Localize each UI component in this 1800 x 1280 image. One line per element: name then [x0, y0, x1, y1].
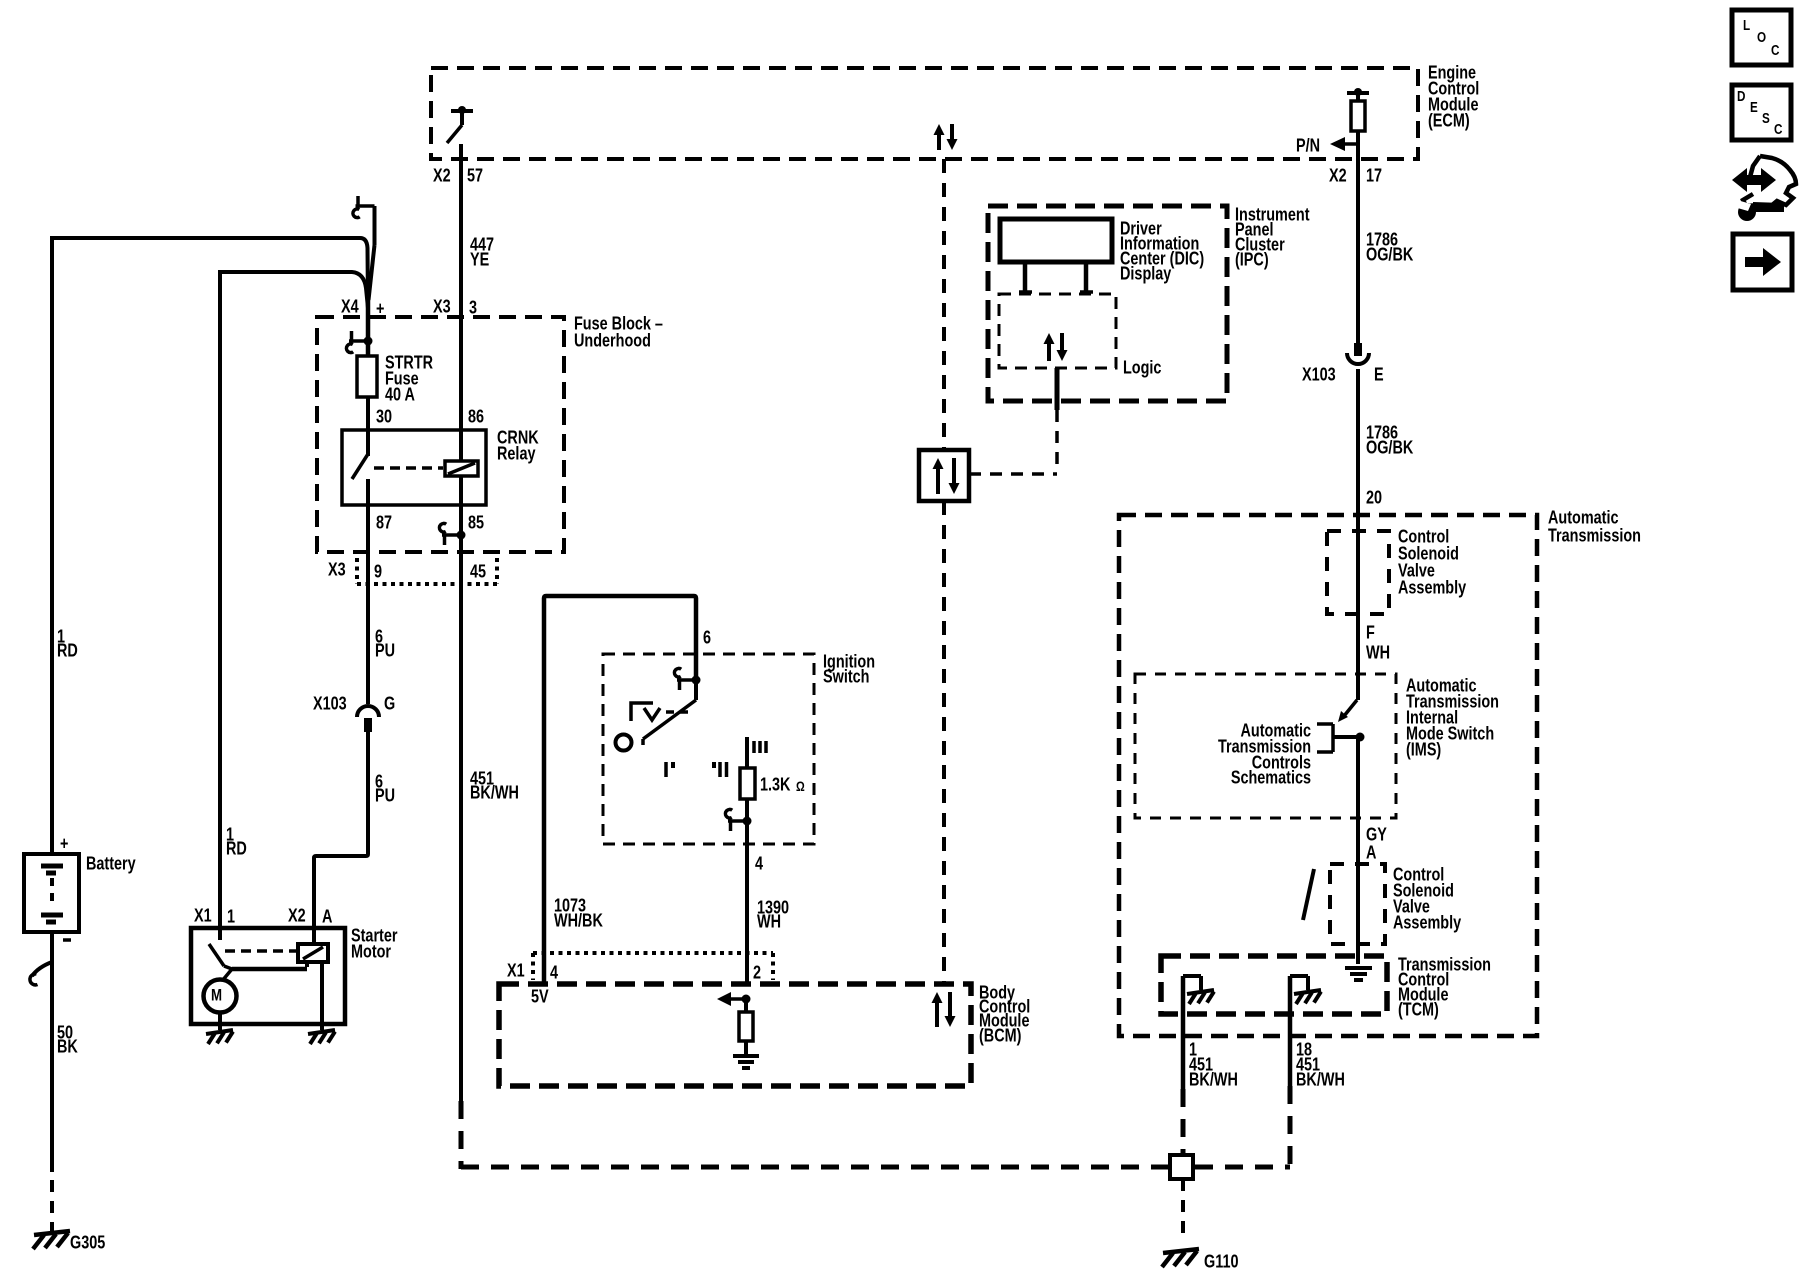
- starter linkage dashed: [225, 949, 296, 953]
- label X103 G: [313, 693, 395, 714]
- svg-text:C: C: [1771, 42, 1780, 59]
- ignition lock symbol: [631, 703, 688, 721]
- svg-text:Logic: Logic: [1123, 357, 1161, 378]
- IMS junction: [1356, 733, 1365, 742]
- svg-text:30: 30: [376, 406, 392, 427]
- label pin 2 bcm: [753, 962, 761, 983]
- svg-text:RD: RD: [226, 838, 247, 859]
- label X3 3: [433, 296, 477, 318]
- slash mark: [1303, 869, 1314, 920]
- label pin 4 bcm: [550, 962, 559, 983]
- svg-text:X3: X3: [328, 559, 346, 580]
- label Ignition Switch: [823, 651, 875, 687]
- starter solenoid link to motor: [222, 962, 307, 981]
- icon wrench: [1734, 200, 1784, 221]
- svg-text:X2: X2: [433, 165, 451, 186]
- svg-text:85: 85: [468, 512, 484, 533]
- label 451 BK/WH: [470, 768, 519, 803]
- svg-text:(BCM): (BCM): [979, 1025, 1021, 1046]
- DIC display: [1000, 219, 1112, 262]
- starter motor box: [191, 928, 345, 1024]
- dashed serial data wire ECM to BCM: [942, 159, 946, 984]
- svg-text:Underhood: Underhood: [574, 330, 651, 351]
- svg-text:87: 87: [376, 512, 392, 533]
- label 1390 WH: [757, 897, 789, 932]
- ignition position II: [712, 762, 727, 777]
- label X2 17: [1329, 165, 1382, 186]
- wire F WH: [1356, 531, 1360, 700]
- serial data junction box: [919, 450, 969, 501]
- svg-text:L: L: [1743, 17, 1750, 34]
- splice with hook below X4: [346, 331, 372, 353]
- label pin 86: [468, 406, 484, 427]
- BCM serial data arrows: [932, 992, 956, 1027]
- svg-text:17: 17: [1366, 165, 1382, 186]
- svg-text:X1: X1: [507, 960, 525, 981]
- IMS switch blade: [1338, 700, 1357, 722]
- svg-text:Assembly: Assembly: [1398, 577, 1467, 598]
- BCM signal ground: [733, 1056, 759, 1068]
- svg-text:86: 86: [468, 406, 484, 427]
- label CRNK Relay: [497, 427, 539, 464]
- logic arrows: [1044, 333, 1068, 361]
- svg-text:X103: X103: [313, 693, 347, 714]
- svg-text:G305: G305: [70, 1232, 105, 1253]
- svg-text:WH: WH: [1366, 642, 1390, 663]
- svg-text:Relay: Relay: [497, 443, 536, 464]
- wire 1 RD node X4 to starter X1: [220, 272, 368, 928]
- label pin 20: [1366, 487, 1382, 508]
- svg-text:X3: X3: [433, 296, 451, 317]
- label pin 4: [755, 853, 764, 874]
- label X1 1 starter: [194, 905, 235, 927]
- svg-text:S: S: [1762, 110, 1770, 127]
- svg-text:+: +: [60, 833, 69, 854]
- fuse block underhood dashed box: [317, 317, 564, 552]
- starter switch contact: [209, 928, 232, 969]
- control solenoid valve assembly upper box: [1327, 531, 1389, 614]
- label 1073 WH/BK: [554, 895, 603, 931]
- svg-text:PU: PU: [375, 785, 395, 806]
- starter solenoid coil: [298, 944, 328, 962]
- wire 451 BK/WH pin 18: [1288, 976, 1293, 1086]
- IMS bracket link: [1317, 724, 1356, 752]
- label Fuse Block - Underhood: [574, 313, 663, 351]
- svg-text:X103: X103: [1302, 364, 1336, 385]
- svg-text:X4: X4: [341, 296, 359, 317]
- ground G305: [33, 1231, 70, 1249]
- TCM ground driver 18: [1290, 976, 1308, 990]
- wire 447 YE: [459, 159, 463, 430]
- transmission control module TCM dashed box: [1161, 956, 1387, 1014]
- TCM ground driver 1: [1183, 976, 1201, 990]
- svg-text:2: 2: [753, 962, 761, 983]
- svg-text:PU: PU: [375, 640, 395, 661]
- svg-text:4: 4: [550, 962, 559, 983]
- label 1 451 BK/WH: [1189, 1039, 1238, 1090]
- wire relay coil pin 86: [459, 430, 463, 461]
- ignition splice hook pin 6: [674, 668, 700, 690]
- label X2 57: [433, 165, 483, 186]
- label 447 YE: [470, 234, 494, 270]
- label Transmission Control Module (TCM): [1398, 954, 1491, 1020]
- connector X1 dotted box: [533, 953, 773, 980]
- relay K1 CRNK box: [342, 430, 486, 505]
- label P/N: [1296, 135, 1320, 156]
- icon shape outline: [1743, 156, 1796, 206]
- label 5V: [531, 986, 549, 1007]
- label Body Control Module (BCM): [979, 982, 1030, 1046]
- svg-text:YE: YE: [470, 249, 489, 270]
- TCM signal ground: [1345, 968, 1372, 980]
- svg-text:Schematics: Schematics: [1231, 767, 1311, 788]
- ignition resistor 1.3K: [740, 737, 755, 812]
- splice hook battery negative: [30, 962, 52, 985]
- svg-text:45: 45: [470, 561, 486, 582]
- svg-text:BK/WH: BK/WH: [470, 782, 519, 803]
- junction box arrows: [933, 458, 960, 494]
- icon LOC box: [1732, 10, 1791, 65]
- wire X4 into fuse block: [366, 300, 371, 356]
- svg-text:G: G: [384, 693, 395, 714]
- dashed wire pin1 to G110 splice: [1181, 1089, 1186, 1155]
- label 1 RD starter: [226, 824, 247, 859]
- svg-text:Assembly: Assembly: [1393, 912, 1462, 933]
- svg-text:WH: WH: [757, 911, 781, 932]
- svg-text:RD: RD: [57, 640, 78, 661]
- label Engine Control Module (ECM): [1428, 62, 1479, 131]
- svg-text:40 A: 40 A: [385, 384, 415, 405]
- label Starter Motor: [351, 925, 398, 962]
- engine control module ECM dashed box: [431, 68, 1418, 159]
- wire pin 87 to X103 G: [366, 505, 370, 704]
- svg-text:A: A: [322, 906, 332, 927]
- dashed wire to G110: [1181, 1179, 1185, 1242]
- label Logic: [1123, 357, 1161, 378]
- svg-text:BK/WH: BK/WH: [1189, 1069, 1238, 1090]
- label Driver Information Center (DIC) Display: [1120, 218, 1204, 284]
- svg-text:Switch: Switch: [823, 666, 869, 687]
- instrument panel cluster IPC dashed box: [988, 206, 1227, 401]
- wire 1073 WH/BK and ignition feed: [544, 596, 696, 984]
- connector X3 dotted box: [357, 558, 497, 584]
- automatic transmission dashed box: [1119, 515, 1537, 1036]
- DIC display legs: [1019, 262, 1093, 292]
- svg-text:Display: Display: [1120, 263, 1172, 284]
- label 1786 OG/BK upper: [1366, 229, 1413, 265]
- ECM serial data arrows: [934, 124, 958, 150]
- dashed wire pin18 to ground bus: [1195, 1086, 1290, 1169]
- wire 50 BK battery negative: [50, 932, 54, 1172]
- label pin 45: [470, 561, 486, 582]
- wire 6 PU to starter X2 A: [314, 730, 368, 944]
- BCM input arrow: [717, 992, 751, 1006]
- icon next arrow box: [1733, 234, 1792, 290]
- svg-text:X2: X2: [288, 905, 306, 926]
- svg-text:G110: G110: [1204, 1251, 1238, 1272]
- svg-text:E: E: [1374, 364, 1384, 385]
- label Automatic Transmission Internal Mode Switch (IMS): [1406, 675, 1499, 760]
- wire 1786 OG/BK upper: [1356, 159, 1360, 343]
- splice hook above X4: [353, 196, 375, 300]
- control solenoid valve assembly lower box: [1330, 864, 1385, 944]
- svg-text:(IPC): (IPC): [1235, 249, 1269, 270]
- label X3 lower: [328, 559, 346, 580]
- label 1 RD: [57, 626, 78, 661]
- svg-text:OG/BK: OG/BK: [1366, 244, 1413, 265]
- svg-text:O: O: [1757, 29, 1766, 46]
- svg-text:OG/BK: OG/BK: [1366, 437, 1413, 458]
- svg-text:1.3K: 1.3K: [760, 774, 790, 795]
- label Battery: [86, 853, 136, 874]
- logic dashed box: [999, 294, 1116, 368]
- ignition position III: [754, 741, 766, 753]
- ignition splice hook pin 4: [725, 809, 751, 831]
- svg-text:Motor: Motor: [351, 941, 392, 962]
- label - battery: [63, 938, 71, 942]
- svg-text:D: D: [1737, 88, 1746, 105]
- svg-text:57: 57: [467, 165, 483, 186]
- svg-text:6: 6: [703, 627, 711, 648]
- ignition switch blade: [643, 680, 696, 745]
- label Control Solenoid Valve Assembly upper: [1398, 526, 1467, 598]
- svg-text:20: 20: [1366, 487, 1382, 508]
- svg-text:1: 1: [227, 906, 235, 927]
- ignition position I: [666, 762, 675, 777]
- inline connector X103 G: [357, 706, 379, 732]
- label X1 connector: [507, 960, 525, 981]
- svg-text:C: C: [1774, 121, 1783, 138]
- ground splice box G110: [1170, 1155, 1193, 1179]
- starter motor M: [204, 980, 237, 1013]
- svg-text:(ECM): (ECM): [1428, 110, 1470, 131]
- svg-text:9: 9: [374, 561, 382, 582]
- svg-text:X1: X1: [194, 905, 212, 926]
- svg-text:X2: X2: [1329, 165, 1347, 186]
- body control module BCM dashed box: [499, 984, 971, 1086]
- splice on wire 45 with hook: [439, 523, 465, 545]
- svg-text:3: 3: [469, 297, 477, 318]
- svg-text:Battery: Battery: [86, 853, 136, 874]
- label Automatic Transmission Controls Schematics: [1218, 720, 1311, 788]
- wire relay coil pin 85: [459, 476, 463, 505]
- starter motor ground wire: [218, 1012, 222, 1030]
- BCM pull-up resistor: [739, 999, 753, 1054]
- label 6 ignition pin: [703, 627, 711, 648]
- label 6 PU upper: [375, 626, 395, 661]
- relay coil: [445, 461, 478, 476]
- chassis ground starter solenoid: [308, 1030, 335, 1044]
- wire 1390 WH: [745, 812, 749, 984]
- dashed serial data wire IPC branch: [969, 410, 1057, 474]
- label GY A: [1366, 824, 1387, 863]
- svg-text:M: M: [211, 986, 222, 1005]
- icon DESC box: [1732, 85, 1791, 140]
- svg-text:F: F: [1366, 622, 1375, 643]
- label 1786 OG/BK lower: [1366, 422, 1413, 458]
- label Control Solenoid Valve Assembly lower: [1393, 864, 1462, 933]
- label X103 E: [1302, 364, 1384, 385]
- svg-text:BK: BK: [57, 1036, 78, 1057]
- label 50 BK: [57, 1022, 78, 1057]
- label pin 9: [374, 561, 382, 582]
- ECM internal switch to pin 57: [447, 106, 473, 159]
- relay switch contact: [352, 430, 368, 505]
- svg-text:5V: 5V: [531, 986, 549, 1007]
- label pin 87: [376, 512, 392, 533]
- label 18 451 BK/WH: [1296, 1039, 1345, 1090]
- label G110: [1204, 1251, 1238, 1272]
- chassis ground TCM 18: [1294, 990, 1321, 1004]
- label pin 30: [376, 406, 392, 427]
- chassis ground starter motor: [206, 1030, 233, 1044]
- label X2 A starter: [288, 905, 332, 927]
- logic output stub: [1055, 368, 1060, 410]
- svg-text:Transmission: Transmission: [1548, 525, 1641, 546]
- starter solenoid ground wire: [320, 962, 324, 1030]
- wire 1 RD battery positive to node X4: [52, 238, 368, 854]
- label F WH: [1366, 622, 1390, 663]
- ECM internal resistor and P/N comparator: [1330, 88, 1369, 159]
- inline connector X103 E: [1347, 343, 1369, 364]
- svg-text:WH/BK: WH/BK: [554, 910, 603, 931]
- IMS dashed box: [1135, 674, 1396, 818]
- node X4 +: [341, 296, 385, 319]
- label STRTR Fuse 40 A: [385, 352, 433, 405]
- svg-text:(TCM): (TCM): [1398, 999, 1439, 1020]
- dashed route 451 to ground bus: [461, 1101, 1168, 1169]
- svg-text:A: A: [1366, 842, 1376, 863]
- wire 451 BK/WH: [459, 505, 463, 1101]
- svg-text:Ω: Ω: [796, 779, 805, 795]
- icon double arrow: [1732, 168, 1776, 192]
- label 1.3K ohm: [760, 774, 805, 795]
- svg-text:P/N: P/N: [1296, 135, 1320, 156]
- label pin 85: [468, 512, 484, 533]
- ground G110: [1162, 1249, 1199, 1267]
- svg-text:(IMS): (IMS): [1406, 739, 1441, 760]
- svg-text:E: E: [1750, 99, 1758, 116]
- wire 451 BK/WH pin 1: [1181, 976, 1186, 1089]
- fuse F1 STRTR 40A: [357, 356, 377, 430]
- wire solenoid to TCM ground: [1356, 864, 1360, 964]
- label Automatic Transmission: [1548, 507, 1641, 546]
- label Instrument Panel Cluster (IPC): [1235, 204, 1310, 270]
- svg-text:4: 4: [755, 853, 764, 874]
- label 6 PU lower: [375, 771, 395, 806]
- ignition switch dashed box: [603, 654, 814, 844]
- battery B1: [24, 854, 79, 932]
- svg-text:BK/WH: BK/WH: [1296, 1069, 1345, 1090]
- chassis ground TCM 1: [1187, 990, 1214, 1004]
- ignition switch contact circle: [616, 735, 632, 751]
- wire GY A: [1356, 737, 1360, 864]
- label G305: [70, 1232, 105, 1253]
- wire 1786 OG/BK lower: [1356, 369, 1360, 531]
- dashed wire to G305: [50, 1180, 54, 1232]
- label + battery: [60, 833, 69, 854]
- relay linkage dashed: [374, 466, 443, 470]
